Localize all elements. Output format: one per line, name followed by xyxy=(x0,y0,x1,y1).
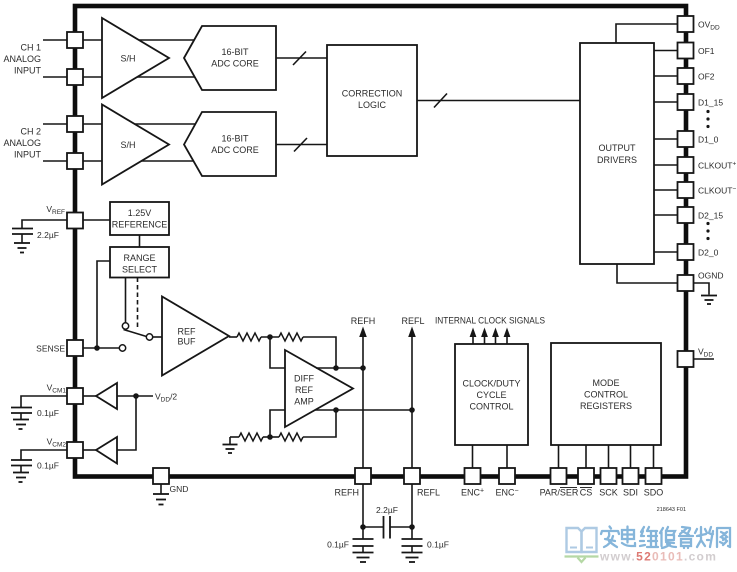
pin VCM2 xyxy=(67,442,83,458)
svg-text:0.1µF: 0.1µF xyxy=(427,540,449,550)
pin REFL xyxy=(404,468,420,484)
wire SDI to mode block xyxy=(630,445,632,468)
svg-text:16-BIT: 16-BIT xyxy=(221,134,249,144)
pin D1_15 xyxy=(678,94,694,110)
wire CH1 input B xyxy=(43,76,200,78)
wire VDD stub xyxy=(694,358,715,360)
svg-text:CS: CS xyxy=(580,488,593,498)
node VDD/2 xyxy=(133,393,139,399)
ADC core 2 block xyxy=(184,112,276,176)
capacitor 2.2uF reference xyxy=(384,516,391,539)
svg-text:CONTROL: CONTROL xyxy=(469,402,513,412)
pin CH1 analog input A xyxy=(67,32,83,48)
wire REFH tap line xyxy=(316,367,363,369)
wire ground to resistor R3 xyxy=(230,436,239,438)
wire VCM1 to buffer xyxy=(83,395,96,397)
svg-text:CLKOUT−: CLKOUT− xyxy=(698,186,736,196)
pin CLKOUT- xyxy=(678,182,694,198)
label PAR/SER overline xyxy=(560,487,577,489)
ground bottom chain xyxy=(223,437,238,453)
wire CH2 input B xyxy=(43,160,200,162)
svg-text:AMP: AMP xyxy=(294,397,314,407)
arrow internal clock 1 xyxy=(470,328,477,345)
svg-text:CORRECTION: CORRECTION xyxy=(342,89,403,99)
svg-text:INPUT: INPUT xyxy=(14,66,42,76)
node tap REFL a xyxy=(333,407,339,413)
output drivers block U-outputdrivers xyxy=(580,43,654,264)
wire SCK to mode block xyxy=(608,445,610,468)
wire top chain to REFH tap xyxy=(303,337,336,368)
svg-text:1.25V: 1.25V xyxy=(128,208,152,218)
arrow internal clock 3 xyxy=(492,328,499,345)
wire VDD/2 down to VCM2 buffer xyxy=(117,396,136,450)
svg-text:S/H: S/H xyxy=(120,140,135,150)
svg-text:REFL: REFL xyxy=(417,488,440,498)
label CS overline xyxy=(580,487,592,489)
op-amp REF BUF xyxy=(162,297,229,376)
wire SENSE to switch xyxy=(83,347,119,349)
pin VCM1 xyxy=(67,388,83,404)
node ellipsis D1 bus xyxy=(706,110,709,128)
wire D2_15 xyxy=(654,214,678,216)
svg-text:INPUT: INPUT xyxy=(14,150,42,160)
svg-text:OF2: OF2 xyxy=(698,72,715,82)
svg-text:0.1µF: 0.1µF xyxy=(327,540,349,550)
pin SDI xyxy=(623,468,639,484)
ADC core 1 block xyxy=(184,26,276,90)
svg-text:PAR/SER: PAR/SER xyxy=(540,488,579,498)
bus slash ADC1 xyxy=(293,52,306,66)
svg-text:DIFF: DIFF xyxy=(294,374,314,384)
svg-text:CYCLE: CYCLE xyxy=(476,390,506,400)
arrow internal clock 2 xyxy=(481,328,488,345)
pin ENC+ xyxy=(465,468,481,484)
svg-text:REFL: REFL xyxy=(401,316,424,326)
pin CH2 analog input B xyxy=(67,153,83,169)
mode control registers block xyxy=(551,343,661,445)
svg-text:16-BIT: 16-BIT xyxy=(221,47,249,57)
ground REFH cap xyxy=(353,553,374,563)
watermark book base xyxy=(565,557,599,563)
wire OF2 xyxy=(654,75,678,77)
svg-text:SCK: SCK xyxy=(599,488,618,498)
svg-text:D1_15: D1_15 xyxy=(698,98,723,108)
correction logic block xyxy=(327,45,417,156)
pin SDO xyxy=(646,468,662,484)
svg-text:REFH: REFH xyxy=(351,316,376,326)
svg-text:0.1µF: 0.1µF xyxy=(37,408,59,418)
ground OGND xyxy=(701,296,717,305)
svg-text:REFH: REFH xyxy=(335,488,360,498)
switch lever xyxy=(124,330,147,337)
pin OVDD xyxy=(678,16,694,32)
wire VREF left to capacitor xyxy=(22,220,67,228)
arrow REFH xyxy=(359,327,367,338)
svg-text:OF1: OF1 xyxy=(698,46,715,56)
node bottom resistor junction xyxy=(267,434,273,440)
wire bottom between resistors xyxy=(263,436,279,438)
svg-text:D1_0: D1_0 xyxy=(698,135,719,145)
ground VREF cap xyxy=(14,243,30,253)
wire REFH vertical xyxy=(362,330,364,468)
wire correction logic to output drivers bus xyxy=(417,100,580,102)
wire ENC- to clock block xyxy=(506,445,508,468)
capacitor 0.1uF VCM2 xyxy=(11,460,32,472)
pin CLKOUT+ xyxy=(678,157,694,173)
resistor R4 bottom xyxy=(279,433,303,441)
wire VCM1 left to capacitor xyxy=(21,396,67,407)
svg-text:ANALOG: ANALOG xyxy=(3,54,41,64)
svg-text:OGND: OGND xyxy=(698,271,724,281)
switch common C xyxy=(146,334,152,340)
wire REFL pin down xyxy=(411,484,413,527)
pin OGND xyxy=(678,275,694,291)
svg-text:MODE: MODE xyxy=(593,378,620,388)
node tap REFL b xyxy=(409,407,415,413)
svg-text:SDI: SDI xyxy=(623,488,638,498)
capacitor 0.1uF VCM1 xyxy=(11,408,32,420)
svg-text:0.1µF: 0.1µF xyxy=(37,461,59,471)
op-amp S/H channel 2 xyxy=(102,105,169,185)
svg-text:OUTPUT: OUTPUT xyxy=(599,143,637,153)
svg-text:S/H: S/H xyxy=(120,54,135,64)
node SENSE junction xyxy=(94,345,100,351)
wire OGND to output drivers xyxy=(617,264,678,283)
wire OGND to ground xyxy=(694,283,710,295)
wire ADC1 output bus xyxy=(276,57,327,59)
wire buffer to VDD/2 node xyxy=(117,395,153,397)
arrow internal clock 4 xyxy=(504,328,511,345)
wire REFH pin down xyxy=(362,484,364,527)
wire CH2 input A xyxy=(43,123,200,125)
ground GND pin xyxy=(153,484,169,505)
wire CLKOUT+ xyxy=(654,164,678,166)
resistor R1 top xyxy=(237,333,261,341)
pin SCK xyxy=(601,468,617,484)
svg-text:RANGE: RANGE xyxy=(123,253,155,263)
pin REFH xyxy=(355,468,371,484)
svg-text:SELECT: SELECT xyxy=(122,265,158,275)
node tap REFH a xyxy=(333,365,339,371)
svg-text:ADC CORE: ADC CORE xyxy=(211,59,259,69)
capacitor 0.1uF REFH xyxy=(353,527,374,552)
wire ENC+ to clock block xyxy=(472,445,474,468)
pin CS xyxy=(578,468,594,484)
wire VREF to reference xyxy=(83,219,110,221)
wire top between resistors xyxy=(261,336,279,338)
node ellipsis D2 bus xyxy=(706,222,709,240)
svg-text:INTERNAL CLOCK SIGNALS: INTERNAL CLOCK SIGNALS xyxy=(435,316,545,326)
wire SENSE junction up to range select xyxy=(97,261,110,348)
svg-text:SDO: SDO xyxy=(644,488,664,498)
pin GND xyxy=(153,468,169,484)
svg-text:218643 F01: 218643 F01 xyxy=(657,507,686,513)
1.25V reference block xyxy=(110,202,169,235)
op-amp DIFF REF AMP xyxy=(285,350,353,427)
wire OF1 xyxy=(654,50,678,52)
label CH1 xyxy=(3,43,41,76)
wire OVDD to output drivers xyxy=(616,24,678,43)
switch contact A range select xyxy=(122,323,128,329)
wire REFL vertical xyxy=(411,330,413,468)
op-amp VCM1 buffer xyxy=(96,383,117,409)
arrow REFL xyxy=(408,327,416,338)
wire range select to switch contact xyxy=(125,278,127,323)
node top resistor junction xyxy=(267,334,273,340)
svg-text:www.520101.com: www.520101.com xyxy=(599,550,717,564)
node tap REFH b xyxy=(360,365,366,371)
bus slash ADC2 xyxy=(294,138,307,152)
clock duty cycle control block xyxy=(455,344,528,445)
wire REFL tap line xyxy=(315,409,412,411)
resistor R2 top xyxy=(279,333,303,341)
svg-text:REGISTERS: REGISTERS xyxy=(580,401,632,411)
svg-text:BUF: BUF xyxy=(178,337,197,347)
pin D2_0 xyxy=(678,244,694,260)
wire REFH to 2.2uF cap xyxy=(363,526,383,528)
wire REFL to 2.2uF cap xyxy=(391,526,413,528)
svg-text:REF: REF xyxy=(295,385,314,395)
pin SENSE xyxy=(67,340,83,356)
pin PAR/SER xyxy=(551,468,567,484)
wire bottom chain to REFL tap xyxy=(303,410,336,437)
op-amp S/H channel 1 xyxy=(102,18,169,98)
svg-text:CLKOUT+: CLKOUT+ xyxy=(698,161,736,171)
wire CS to mode block xyxy=(585,445,587,468)
ground REFL cap xyxy=(402,553,423,563)
wire dashed range select control xyxy=(137,278,139,330)
pin ENC- xyxy=(499,468,515,484)
svg-text:ADC CORE: ADC CORE xyxy=(211,145,259,155)
svg-text:D2_15: D2_15 xyxy=(698,211,723,221)
svg-text:ANALOG: ANALOG xyxy=(3,138,41,148)
svg-text:2.2µF: 2.2µF xyxy=(376,505,398,515)
svg-text:CH 2: CH 2 xyxy=(20,127,41,137)
wire VCM2 left to capacitor xyxy=(21,450,67,460)
pin OF1 xyxy=(678,43,694,59)
wire PAR/SER to mode block xyxy=(558,445,560,468)
resistor R3 bottom xyxy=(239,433,263,441)
svg-text:CH 1: CH 1 xyxy=(20,43,41,53)
svg-text:2.2µF: 2.2µF xyxy=(37,230,59,240)
node REFH cap junction xyxy=(360,524,366,530)
watermark chinese text xyxy=(601,527,730,549)
svg-text:CONTROL: CONTROL xyxy=(584,390,628,400)
wire D1_15 xyxy=(654,101,678,103)
bus slash correction output xyxy=(434,94,447,108)
label CH2 xyxy=(3,127,41,160)
wire ADC2 output bus xyxy=(276,144,327,146)
switch contact B sense xyxy=(119,345,125,351)
pin CH1 analog input B xyxy=(67,69,83,85)
wire top feedback to amp input xyxy=(270,337,285,368)
wire reference to range select xyxy=(139,235,141,247)
wire VCM2 to buffer xyxy=(83,449,96,451)
wire CH1 input A xyxy=(43,39,200,41)
wire CLKOUT- xyxy=(654,189,678,191)
wire bottom feedback to amp input xyxy=(270,410,285,437)
wire D1_0 xyxy=(654,138,678,140)
ground VCM2 cap xyxy=(13,473,29,483)
capacitor 0.1uF REFL xyxy=(402,527,423,552)
svg-text:LOGIC: LOGIC xyxy=(358,100,387,110)
watermark book icon xyxy=(567,528,597,552)
range select block xyxy=(110,247,169,278)
pin OF2 xyxy=(678,68,694,84)
ground VCM1 cap xyxy=(13,420,29,430)
wire SDO to mode block xyxy=(653,445,655,468)
svg-text:DRIVERS: DRIVERS xyxy=(597,155,637,165)
pin VREF xyxy=(67,213,83,229)
wire switch to ref buf xyxy=(153,336,162,338)
wire ref buf output xyxy=(229,336,237,338)
wire D2_0 xyxy=(654,251,678,253)
capacitor 2.2uF VREF xyxy=(12,229,33,243)
pin CH2 analog input A xyxy=(67,116,83,132)
svg-text:CLOCK/DUTY: CLOCK/DUTY xyxy=(462,379,520,389)
chip outline border xyxy=(75,6,686,477)
pin D2_15 xyxy=(678,207,694,223)
op-amp VCM2 buffer xyxy=(96,437,117,464)
svg-text:REF: REF xyxy=(178,327,197,337)
pin VDD xyxy=(678,351,694,367)
pin D1_0 xyxy=(678,131,694,147)
svg-text:GND: GND xyxy=(170,484,189,494)
svg-text:SENSE: SENSE xyxy=(36,344,65,354)
svg-text:REFERENCE: REFERENCE xyxy=(112,220,168,230)
svg-text:D2_0: D2_0 xyxy=(698,248,719,258)
node REFL cap junction xyxy=(409,524,415,530)
